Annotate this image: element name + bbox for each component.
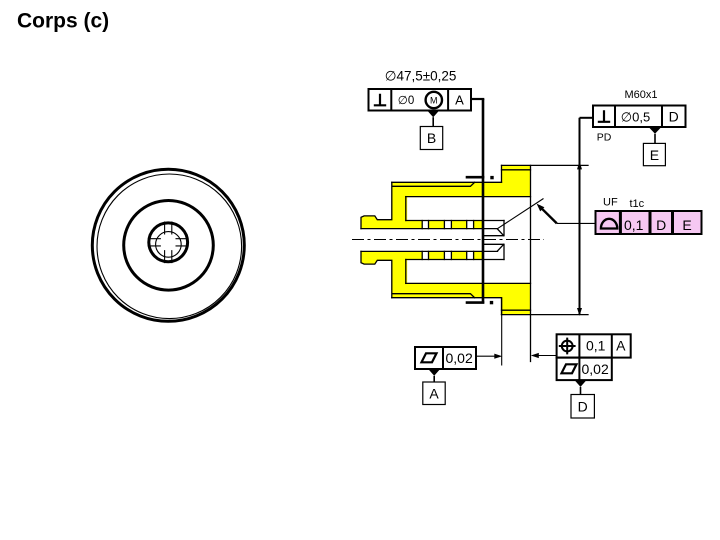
datum B triangle: [427, 111, 439, 118]
thread teeth upper row: [405, 221, 422, 229]
svg-text:∅0: ∅0: [398, 95, 414, 107]
datum dot bottom: [490, 301, 493, 304]
left wall lower yellow: [392, 251, 407, 284]
top FCF frame: [369, 89, 472, 111]
bore chamfer lower: [498, 245, 504, 252]
position FCF row1 frame: [557, 334, 631, 357]
datum tick bottom: [466, 301, 485, 304]
flange left face upper: [501, 165, 503, 182]
flange bore line upper: [406, 196, 531, 198]
datum E stem: [654, 134, 656, 144]
UF FCF dividers: [620, 211, 672, 234]
svg-text:0,02: 0,02: [446, 350, 473, 366]
datum B stem: [432, 117, 434, 126]
front view tick marks S: [165, 250, 172, 263]
datum plane thick vertical line: [482, 99, 485, 304]
UF leader arrowhead: [537, 204, 545, 212]
teeth gap edges lower: [422, 251, 473, 259]
flatness FCF row2 frame: [557, 358, 612, 381]
nose upper outline: [361, 182, 392, 228]
inner hole line upper: [483, 235, 504, 237]
right FCF arrow: [531, 353, 539, 358]
front view thread thin circle: [97, 174, 242, 319]
centerline: [352, 239, 544, 241]
small bore line lower: [361, 250, 498, 252]
front view outer circle (flange OD): [92, 169, 244, 321]
UF target thin line: [497, 199, 543, 229]
perpendicularity symbol M60 FCF: [598, 110, 610, 122]
main body top edge: [392, 181, 502, 183]
flatness symbol right: [562, 364, 577, 373]
flange top edge + extension line: [502, 164, 589, 166]
UF FCF pink background: [596, 211, 702, 234]
front view tick marks E: [176, 239, 189, 246]
nose lower outline: [361, 251, 392, 297]
flange bottom edge + extension line: [502, 314, 589, 316]
front view small circle (counterbore): [149, 223, 188, 262]
svg-text:D: D: [656, 217, 666, 233]
UF leader horizontal: [557, 222, 596, 224]
left wall upper yellow: [392, 196, 407, 229]
svg-text:D: D: [669, 108, 679, 124]
datum tick top: [466, 176, 485, 179]
profile of surface symbol: [601, 219, 617, 229]
front view inner thin circle (small bore): [156, 232, 182, 258]
main body upper band yellow: [392, 182, 502, 197]
svg-text:D: D: [578, 399, 588, 415]
datum D box: [571, 395, 594, 419]
bore chamfer upper: [498, 229, 504, 236]
nose upper yellow: [361, 216, 393, 229]
counterbore edge upper: [406, 220, 504, 222]
svg-text:∅0,5: ∅0,5: [621, 109, 650, 124]
datum A box: [423, 382, 445, 405]
right FCF leader: [535, 355, 557, 357]
teeth gap edges upper: [422, 221, 473, 229]
left FCF arrow: [494, 354, 502, 359]
main body bottom edge: [392, 297, 502, 299]
flange thread root line top: [502, 169, 531, 171]
svg-text:M: M: [430, 95, 438, 105]
inner step right face upper: [503, 221, 505, 236]
svg-text:E: E: [682, 217, 691, 233]
datum dot top: [490, 176, 493, 179]
svg-text:t1c: t1c: [630, 198, 645, 210]
svg-text:B: B: [427, 130, 436, 146]
inner hole line lower: [483, 243, 504, 245]
flatness symbol left: [422, 353, 437, 362]
counterbore edge lower: [406, 259, 504, 261]
MMC modifier circle: [426, 92, 442, 108]
datum A stem: [433, 376, 435, 382]
left FCF leader: [476, 355, 498, 357]
counterbore left face upper: [405, 197, 407, 221]
thread minor line bottom: [393, 294, 475, 298]
counterbore left face lower: [405, 260, 407, 284]
inner step right face lower: [503, 244, 505, 259]
datum E triangle: [649, 127, 662, 134]
connector from top FCF to datum line: [470, 98, 484, 100]
front view tick marks N: [165, 222, 172, 235]
datum E box: [643, 143, 665, 165]
M60 dim arrow up: [577, 161, 582, 169]
extension line below flange left face: [501, 298, 503, 366]
M60 dimension line vertical: [579, 118, 581, 315]
perpendicularity symbol top FCF: [374, 94, 386, 106]
svg-text:A: A: [429, 385, 439, 401]
main body lower band yellow: [392, 283, 502, 298]
flange thread root line bottom: [502, 309, 531, 311]
svg-text:0,1: 0,1: [586, 338, 606, 354]
M60 dim connector to FCF: [580, 117, 594, 119]
flange lower yellow: [501, 283, 531, 315]
svg-text:0,02: 0,02: [582, 361, 609, 377]
thread minor line top: [393, 182, 475, 186]
small bore line upper: [361, 228, 498, 230]
UF leader diagonal: [539, 206, 557, 224]
front view middle circle (flange bore): [124, 201, 214, 291]
flange right end face line + extension below: [530, 165, 532, 361]
svg-text:Corps (c): Corps (c): [17, 10, 109, 33]
flange upper yellow: [501, 165, 531, 197]
svg-text:A: A: [616, 338, 626, 354]
datum A triangle: [428, 369, 440, 376]
M60 dim arrow down: [577, 308, 582, 316]
svg-text:UF: UF: [603, 197, 618, 209]
datum D triangle: [575, 380, 587, 387]
flatness FCF frame: [415, 347, 476, 369]
nose lower yellow: [361, 251, 393, 264]
svg-text:E: E: [650, 147, 659, 163]
flange left face lower: [501, 298, 503, 315]
svg-text:A: A: [455, 92, 464, 107]
datum B box: [420, 127, 442, 150]
thread teeth lower row: [405, 251, 422, 259]
svg-text:0,1: 0,1: [624, 217, 644, 233]
position symbol: [559, 338, 576, 355]
svg-text:PD: PD: [597, 131, 612, 143]
flange bore line lower: [406, 282, 531, 284]
svg-text:M60x1: M60x1: [625, 89, 658, 101]
datum D stem: [580, 387, 582, 395]
M60 FCF frame: [593, 106, 686, 128]
front view tick marks W: [148, 239, 161, 246]
svg-text:∅47,5±0,25: ∅47,5±0,25: [385, 69, 457, 84]
